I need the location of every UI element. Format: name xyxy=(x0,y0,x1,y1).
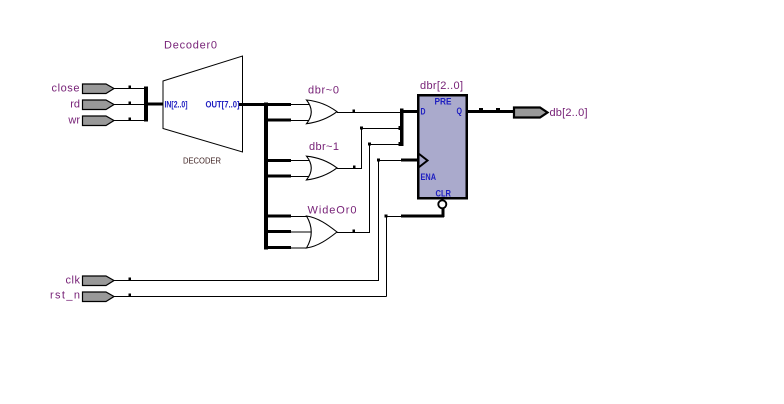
wire dbr~1 to D bar xyxy=(360,127,400,130)
junction mark dbr~1 at D bar xyxy=(399,126,404,130)
svg-text:dbr~0: dbr~0 xyxy=(308,85,339,97)
svg-text:db[2..0]: db[2..0] xyxy=(550,107,588,119)
stub to dbr~1 input A xyxy=(266,159,291,162)
wire into WideOr0 input C xyxy=(291,247,307,249)
stub to WideOr0 input B xyxy=(266,230,291,233)
wire dbr~1 output xyxy=(337,166,362,169)
label dbr~1 xyxy=(309,141,339,153)
svg-text:ENA: ENA xyxy=(421,172,437,183)
svg-text:WideOr0: WideOr0 xyxy=(308,205,357,217)
label DECODER xyxy=(183,156,221,166)
wire rst_n to CLR stub xyxy=(385,215,402,218)
pin D xyxy=(421,107,426,118)
input port clk xyxy=(83,276,115,286)
svg-text:Q: Q xyxy=(457,106,463,117)
label dbr[2..0] xyxy=(420,80,463,92)
clock pin stub xyxy=(401,159,418,162)
wire clk horizontal xyxy=(114,278,379,281)
pin PRE xyxy=(435,97,452,108)
wire WideOr0 riser xyxy=(369,144,371,233)
CLR pin stub vertical xyxy=(441,209,444,218)
wire rst_n riser xyxy=(386,216,388,297)
pin IN[2..0] xyxy=(165,100,188,111)
wire into dbr~1 input B xyxy=(291,176,310,178)
wire into dbr~0 input B xyxy=(291,120,310,122)
wire rst_n horizontal xyxy=(114,294,387,297)
or-gate dbr~1 xyxy=(307,156,338,180)
svg-text:D: D xyxy=(421,107,426,118)
wire into dbr~0 input A xyxy=(291,104,310,106)
svg-text:OUT[7..0]: OUT[7..0] xyxy=(206,100,240,111)
wire into WideOr0 input B xyxy=(291,231,311,233)
label close xyxy=(52,83,80,95)
svg-text:PRE: PRE xyxy=(435,97,452,108)
pin CLR xyxy=(436,189,452,200)
svg-text:close: close xyxy=(52,83,80,95)
stub to WideOr0 input C xyxy=(266,246,291,249)
svg-text:Decoder0: Decoder0 xyxy=(164,40,217,52)
label Decoder0 xyxy=(164,40,217,52)
wire clk riser xyxy=(378,160,380,281)
output port db[2..0] xyxy=(514,108,548,118)
wire into WideOr0 input A xyxy=(291,216,307,218)
label db[2..0] xyxy=(550,107,588,119)
stub to WideOr0 input A xyxy=(266,215,291,218)
label rd xyxy=(70,99,80,111)
or-gate dbr~0 xyxy=(307,100,338,124)
bus bar decoder fanout xyxy=(264,103,268,250)
input port rst_n xyxy=(83,292,115,302)
bus bar D join xyxy=(400,109,404,147)
wire D bus to flip-flop xyxy=(403,110,418,113)
svg-text:dbr[2..0]: dbr[2..0] xyxy=(420,80,463,92)
flip-flop dbr[2..0] xyxy=(418,95,467,198)
wire wr to bus bar xyxy=(114,118,146,121)
input port wr xyxy=(83,116,115,126)
svg-text:DECODER: DECODER xyxy=(183,156,221,166)
svg-text:wr: wr xyxy=(67,115,80,127)
svg-text:CLR: CLR xyxy=(436,189,452,200)
label rst_n xyxy=(50,290,80,302)
input port close xyxy=(83,84,115,94)
CLR bubble xyxy=(438,200,446,208)
svg-text:IN[2..0]: IN[2..0] xyxy=(165,100,188,111)
wire rd to bus bar xyxy=(114,102,146,105)
wire clk to clock pin xyxy=(377,159,401,162)
clock triangle xyxy=(419,154,428,168)
svg-text:rd: rd xyxy=(70,99,80,111)
label dbr~0 xyxy=(308,85,339,97)
or-gate WideOr0 xyxy=(307,216,338,248)
pin Q xyxy=(457,106,463,117)
svg-text:dbr~1: dbr~1 xyxy=(309,141,339,153)
CLR pin stub horizontal xyxy=(401,215,444,218)
stub to dbr~1 input B xyxy=(266,175,291,178)
pin OUT[7..0] xyxy=(206,100,240,111)
stub to dbr~0 input B xyxy=(266,119,291,122)
wire close to bus bar xyxy=(114,86,146,89)
pin ENA xyxy=(421,172,437,183)
label wr xyxy=(67,115,80,127)
decoder Decoder0 xyxy=(163,56,243,152)
wire dbr~1 riser xyxy=(361,128,363,169)
wire Q output to port xyxy=(466,108,514,112)
junction mark WideOr0 at D bar xyxy=(399,142,404,146)
wire decoder OUT bus to fanout bar xyxy=(239,103,291,106)
bus bar joining close/rd/wr xyxy=(144,87,148,122)
label clk xyxy=(66,275,81,287)
input port rd xyxy=(83,100,115,110)
label WideOr0 xyxy=(308,205,357,217)
wire WideOr0 to D bar xyxy=(368,143,400,146)
wire into dbr~1 input A xyxy=(291,160,310,162)
wire dbr~0 output to D bar xyxy=(337,110,400,113)
svg-text:clk: clk xyxy=(66,275,81,287)
wire WideOr0 output xyxy=(337,230,370,233)
wire bus to decoder IN xyxy=(147,103,164,106)
